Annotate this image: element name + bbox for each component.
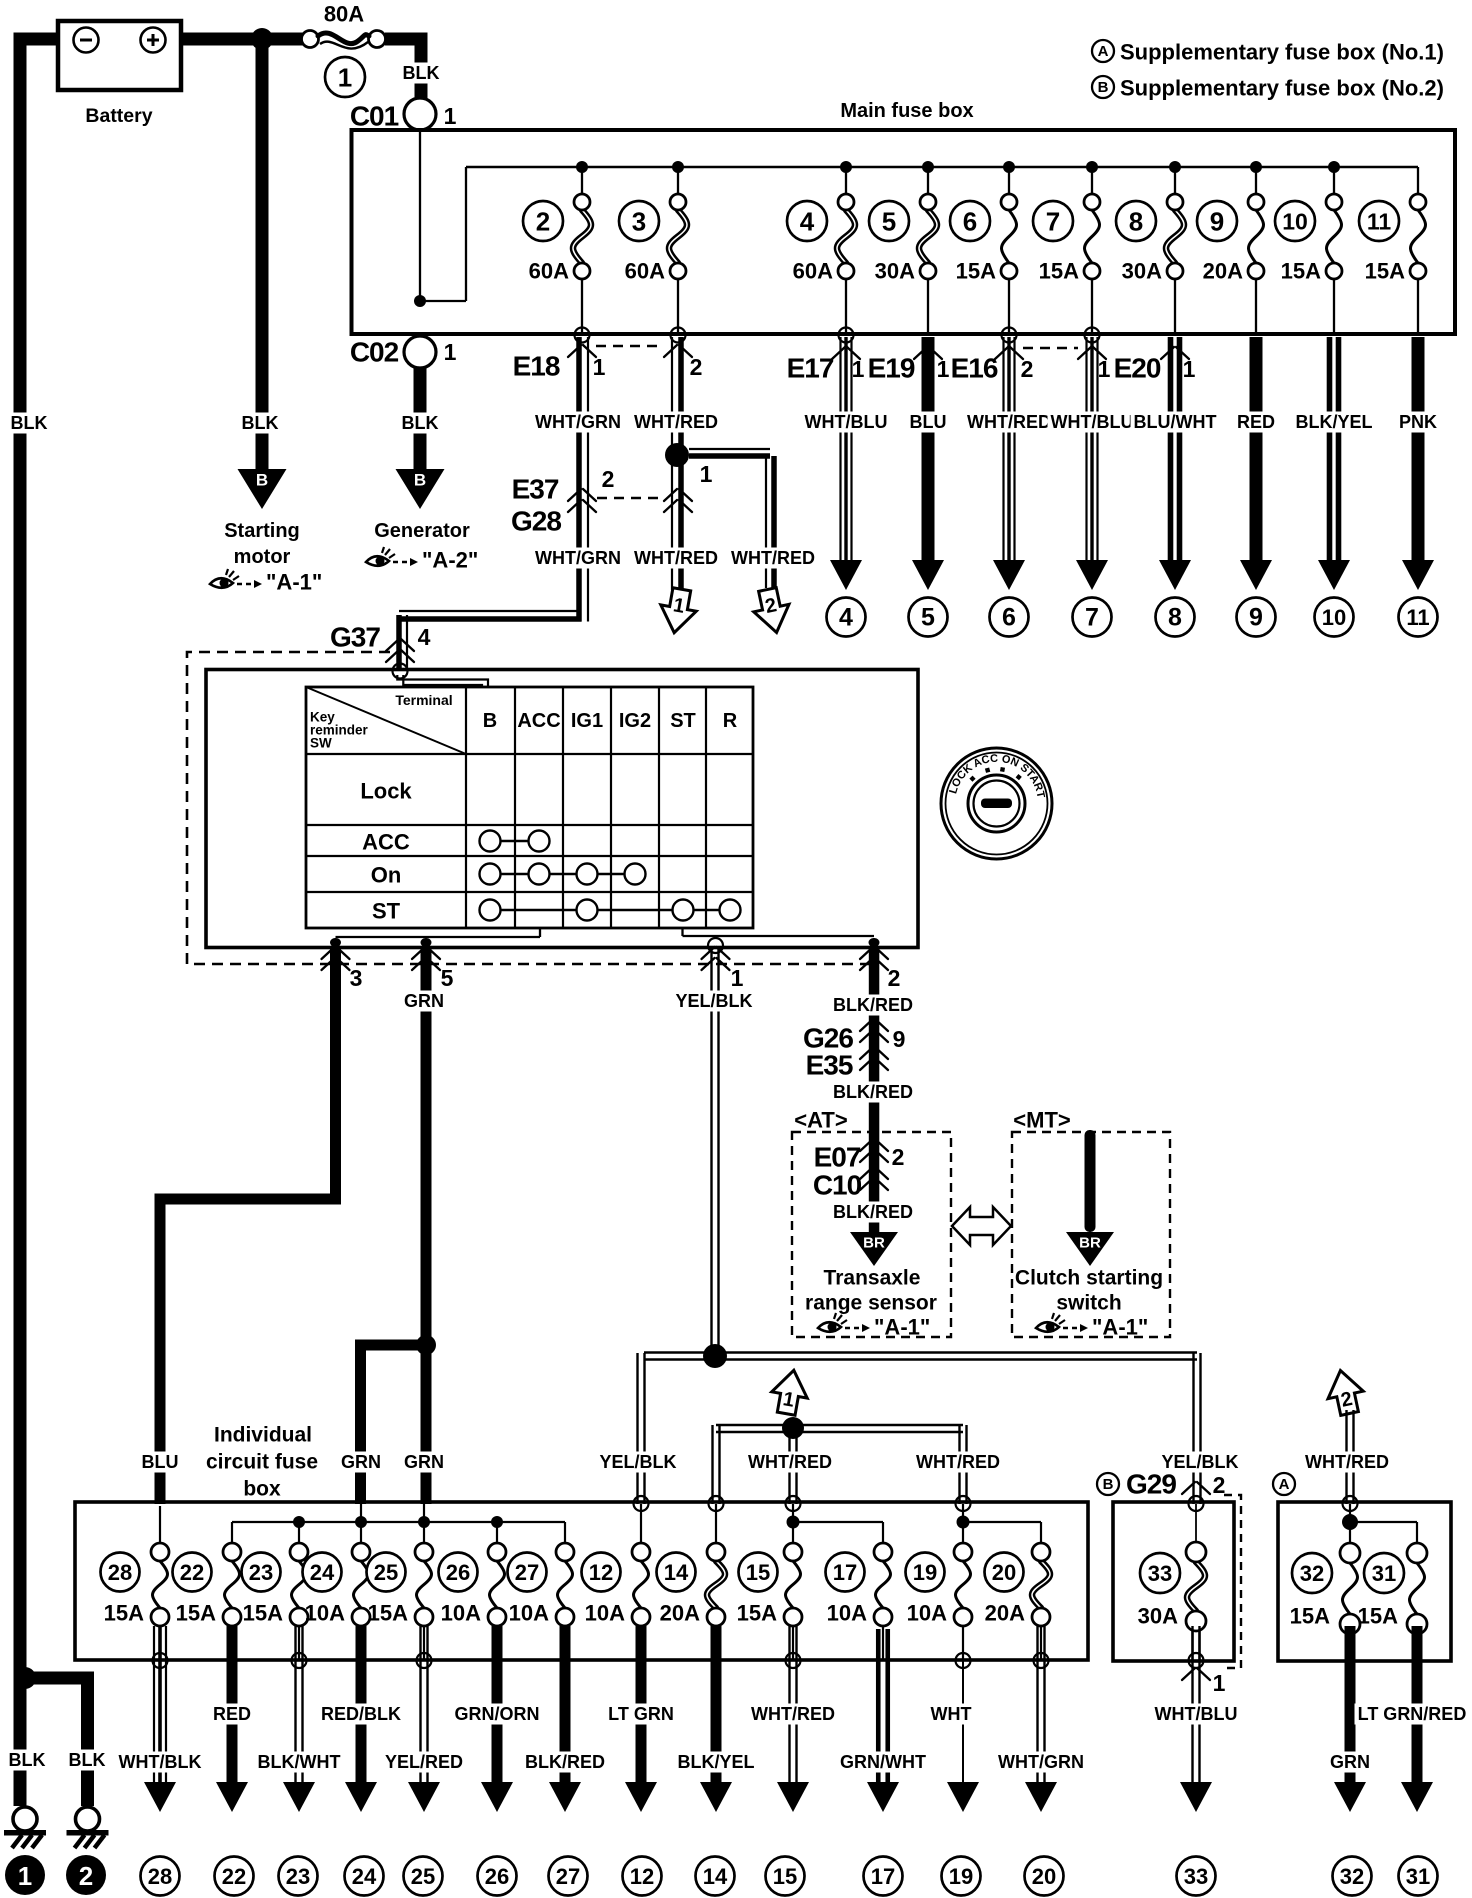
svg-text:BLK/RED: BLK/RED [525, 1752, 605, 1772]
main fuse box [352, 130, 1456, 334]
connector G29 mark bottom [1182, 1668, 1210, 1680]
svg-text:Battery: Battery [85, 105, 152, 127]
label WHT/RED A box [1302, 1452, 1392, 1473]
svg-text:E18: E18 [513, 351, 560, 382]
svg-text:YEL/RED: YEL/RED [385, 1752, 463, 1772]
fuse F2 60A [573, 210, 591, 263]
junction node ground branch [14, 1667, 36, 1689]
svg-text:15A: 15A [243, 1601, 283, 1626]
open arrow 2 from supplementary [1323, 1367, 1367, 1418]
connector G29 mark top [1182, 1482, 1210, 1494]
svg-text:RED/BLK: RED/BLK [321, 1704, 401, 1724]
svg-text:BLK: BLK [242, 413, 279, 433]
svg-text:GRN/ORN: GRN/ORN [455, 1704, 540, 1724]
callout circle 22 individual [173, 1553, 212, 1592]
label WHT/GRN below E37 [532, 548, 624, 569]
svg-text:1: 1 [18, 1861, 32, 1891]
svg-text:G37: G37 [330, 622, 380, 653]
svg-text:1: 1 [444, 339, 457, 365]
wire ACC column to pins 3 and 5 [539, 928, 541, 937]
AT MT double arrow [952, 1207, 1011, 1245]
arrow BR transaxle [850, 1232, 898, 1266]
svg-text:"A-1": "A-1" [1092, 1315, 1148, 1340]
svg-text:27: 27 [515, 1560, 539, 1585]
junction node bus fuse 8 [1169, 161, 1181, 173]
fuse F23 15A [292, 1561, 307, 1608]
label WHT/RED below E37 [631, 548, 721, 569]
solid arrow output 28 [144, 1782, 176, 1812]
legend circle B G29 [1097, 1473, 1119, 1495]
fuse F12 10A [634, 1561, 649, 1608]
svg-text:WHT/RED: WHT/RED [967, 412, 1051, 432]
svg-text:WHT/RED: WHT/RED [751, 1704, 835, 1724]
svg-text:19: 19 [913, 1560, 937, 1585]
svg-text:RED: RED [1237, 412, 1275, 432]
arrow BR clutch [1066, 1232, 1114, 1266]
svg-text:B: B [483, 710, 497, 732]
svg-text:26: 26 [485, 1864, 509, 1889]
wire bus to fuse 3 [677, 167, 679, 195]
wire ground 1 BLK [14, 1678, 27, 1806]
interior feed fuse 14 [715, 1504, 717, 1543]
svg-text:BLK/YEL: BLK/YEL [677, 1752, 754, 1772]
switch contacts On row [490, 873, 635, 875]
junction node GRN branch [416, 1335, 436, 1355]
wire bus to fuse 10 [1333, 167, 1335, 195]
solid arrow output 23 [283, 1782, 315, 1812]
destination circle 9 [1237, 598, 1276, 637]
svg-text:SW: SW [310, 736, 332, 751]
loop output fuse 20 [1034, 1653, 1049, 1668]
svg-text:22: 22 [222, 1864, 246, 1889]
ground symbol 2 [76, 1807, 100, 1831]
svg-text:WHT/BLU: WHT/BLU [1155, 1704, 1238, 1724]
svg-text:10: 10 [1282, 209, 1308, 235]
destination circle 10 [1315, 598, 1354, 637]
loop main box exit x582 [575, 328, 590, 343]
svg-text:10A: 10A [827, 1601, 867, 1626]
wire output fuse 12 [636, 1626, 647, 1790]
svg-text:BLK: BLK [402, 413, 439, 433]
solid arrow output 20 [1025, 1782, 1057, 1812]
svg-text:ST: ST [372, 899, 401, 924]
svg-text:Lock: Lock [360, 779, 412, 804]
solid arrow output 24 [345, 1782, 377, 1812]
svg-text:23: 23 [249, 1560, 273, 1585]
svg-text:15: 15 [773, 1864, 797, 1889]
svg-text:A: A [1279, 1476, 1290, 1493]
solid arrow fuse 11 [1402, 560, 1434, 590]
svg-text:IG2: IG2 [619, 710, 651, 732]
wire fuse 27 lower stub [564, 1626, 566, 1660]
generator see A-2 [366, 556, 389, 566]
svg-text:32: 32 [1300, 1561, 1324, 1586]
label BLK/RED [522, 1752, 608, 1773]
svg-text:12: 12 [589, 1560, 613, 1585]
wire output fuse 33 [1191, 1626, 1193, 1790]
svg-text:C01: C01 [350, 101, 399, 132]
pin 5 stub [421, 938, 432, 947]
svg-text:WHT/BLK: WHT/BLK [119, 1752, 202, 1772]
wire fuse 25 lower stub [423, 1626, 425, 1660]
label GRN pin5 [401, 991, 447, 1012]
callout circle 1 fusible link [325, 57, 365, 97]
connector G37 marks pin2 [860, 947, 888, 959]
label RED [1234, 412, 1278, 433]
callout circle 3 [619, 201, 659, 241]
loop G29 entry [1189, 1496, 1204, 1511]
pin 3 stub [330, 938, 341, 947]
label WHT/BLU [802, 412, 891, 433]
svg-text:LT GRN: LT GRN [608, 1704, 674, 1724]
wire branch to starting motor BLK [256, 39, 269, 478]
wire output fuse 24 [356, 1626, 367, 1790]
svg-text:LT GRN/RED: LT GRN/RED [1358, 1704, 1467, 1724]
svg-text:2: 2 [536, 207, 550, 237]
fuse F24 10A [354, 1561, 369, 1608]
callout circle 17 individual [826, 1553, 865, 1592]
svg-text:5: 5 [921, 604, 935, 632]
junction node YEL/BLK [703, 1344, 727, 1368]
loop A box entry [1343, 1496, 1358, 1511]
callout circle 28 individual [101, 1553, 140, 1592]
ground circle 1 [5, 1855, 45, 1895]
destination circle 11 [1399, 598, 1438, 637]
svg-text:2: 2 [1213, 1472, 1226, 1498]
junction node bus fuse 7 [1086, 161, 1098, 173]
fuse F5 30A [919, 210, 937, 263]
svg-text:WHT/RED: WHT/RED [634, 548, 718, 568]
fuse F10 15A [1327, 210, 1342, 263]
connector G37 marks pin3 [322, 947, 350, 959]
svg-text:Individual: Individual [214, 1424, 312, 1447]
svg-text:28: 28 [108, 1560, 132, 1585]
svg-text:9: 9 [1249, 604, 1263, 632]
svg-text:Supplementary fuse box (No.1): Supplementary fuse box (No.1) [1120, 40, 1444, 65]
destination circle 15 [766, 1857, 805, 1896]
solid arrow output 19 [947, 1782, 979, 1812]
svg-text:Generator: Generator [374, 520, 470, 542]
fuse F26 10A [490, 1561, 505, 1608]
fuse 80A main fusible link [302, 31, 319, 48]
junction node bus x361 [355, 1516, 367, 1528]
label WHT/BLU [1048, 412, 1137, 433]
svg-text:2: 2 [888, 965, 901, 991]
destination circle 25 [404, 1857, 443, 1896]
connector E16 marks [995, 347, 1023, 359]
callout circle 9 [1197, 201, 1237, 241]
svg-text:switch: switch [1056, 1292, 1121, 1315]
destination circle 4 [827, 598, 866, 637]
wire fuse 23 lower stub [298, 1626, 300, 1660]
svg-text:BLK/RED: BLK/RED [833, 1202, 913, 1222]
ground symbol 1 [13, 1807, 37, 1831]
wire clutch switch [1085, 1130, 1096, 1232]
junction node bus fuse 10 [1328, 161, 1340, 173]
connector G37 dashed boundary [187, 652, 874, 964]
wire BLK/RED pin2 [869, 947, 880, 1232]
callout circle 10 [1275, 201, 1315, 241]
destination circle 12 [623, 1857, 662, 1896]
svg-text:23: 23 [286, 1864, 310, 1889]
svg-text:15: 15 [746, 1560, 770, 1585]
callout circle 33 [1140, 1553, 1180, 1593]
wire fuse 20 lower stub [1040, 1626, 1042, 1660]
svg-text:6: 6 [1002, 604, 1016, 632]
wire WHT/GRN to B column [397, 675, 488, 687]
label GRN [1327, 1752, 1373, 1773]
loop pin 1 key switch [708, 938, 723, 953]
svg-text:8: 8 [1129, 207, 1143, 237]
svg-text:BLK: BLK [69, 1750, 106, 1770]
wire PNK from fuse [1412, 337, 1425, 562]
wire GRN branch [355, 1340, 426, 1351]
label YEL/BLK G29 [1159, 1452, 1242, 1473]
connector E17 mark [832, 347, 860, 359]
pin 2 stub [869, 938, 880, 947]
svg-text:10A: 10A [509, 1601, 549, 1626]
wire RED from fuse [1250, 337, 1263, 562]
svg-text:19: 19 [949, 1864, 973, 1889]
junction node bus fuse 3 [672, 161, 684, 173]
svg-text:11: 11 [1406, 605, 1429, 630]
label PNK [1396, 412, 1440, 433]
svg-text:9: 9 [1210, 207, 1224, 237]
svg-text:WHT/GRN: WHT/GRN [535, 412, 621, 432]
fuse F32 15A [1343, 1563, 1358, 1614]
wire fuse 22 lower stub [231, 1626, 233, 1660]
svg-text:15A: 15A [1290, 1604, 1330, 1629]
svg-text:10A: 10A [441, 1601, 481, 1626]
wire fuse 17 lower stub [882, 1626, 884, 1660]
wire bus to fuse 9 [1255, 167, 1257, 195]
table diagonal [306, 687, 466, 754]
wire fuse 9 to box bottom [1255, 279, 1257, 332]
legend B supplementary fuse box No.2 [1092, 76, 1114, 98]
destination circle 33 [1177, 1857, 1216, 1896]
wire BLU from fuse [922, 337, 935, 562]
wire bus to fuse 11 [1417, 167, 1419, 195]
battery [58, 21, 181, 90]
label WHT/RED fuse3 [631, 412, 721, 433]
solid arrow output 32 [1334, 1782, 1366, 1812]
fuse F9 20A [1249, 210, 1264, 263]
wire battery positive to fuse [179, 33, 303, 46]
destination circle 19 [942, 1857, 981, 1896]
svg-text:1: 1 [731, 965, 744, 991]
wire bus to fuse 2 [581, 167, 583, 195]
svg-text:7: 7 [1046, 207, 1060, 237]
wire WHT/RED to A box [1345, 1410, 1347, 1504]
wire fuse 11 to box bottom [1417, 279, 1419, 332]
label BLK/WHT [255, 1752, 344, 1773]
wire output fuse 25 [419, 1626, 421, 1790]
svg-text:1: 1 [852, 356, 865, 382]
fuse F15 15A [786, 1561, 801, 1608]
svg-text:80A: 80A [324, 2, 364, 27]
solid arrow fuse 7 [1076, 560, 1108, 590]
callout circle 31 [1364, 1553, 1404, 1593]
wire WHT/BLU from fuse [839, 337, 841, 562]
wire fuse 24 lower stub [360, 1626, 362, 1660]
fuse F6 15A [1002, 210, 1017, 263]
wire fuse 4 to box bottom [845, 279, 847, 332]
callout circle 2 [523, 201, 563, 241]
svg-text:60A: 60A [793, 259, 833, 284]
destination circle 24 [345, 1857, 384, 1896]
solid arrow output 14 [700, 1782, 732, 1812]
connector G37 marks pin5 [412, 947, 440, 959]
svg-text:BLK: BLK [403, 63, 440, 83]
callout circle 12 individual [582, 1553, 621, 1592]
wire battery negative BLK vertical [14, 33, 61, 46]
svg-text:box: box [243, 1478, 281, 1501]
wire fuse 7 to box bottom [1091, 279, 1093, 332]
svg-text:Transaxle: Transaxle [824, 1267, 921, 1290]
connector G37 marks [386, 639, 414, 651]
svg-text:8: 8 [1168, 604, 1182, 632]
solid arrow output 26 [481, 1782, 513, 1812]
callout circle 27 individual [508, 1553, 547, 1592]
destination circle 14 [696, 1857, 735, 1896]
junction node bus fuse 5 [922, 161, 934, 173]
svg-text:15A: 15A [104, 1601, 144, 1626]
connector E20 mark [1161, 347, 1189, 359]
connector C01 [404, 98, 436, 130]
svg-text:1: 1 [700, 461, 713, 487]
open arrow 2 to supplementary box [750, 586, 794, 637]
svg-text:60A: 60A [625, 259, 665, 284]
fuse F4 60A [837, 210, 855, 263]
svg-text:"A-1": "A-1" [266, 570, 322, 595]
svg-text:2: 2 [602, 466, 615, 492]
svg-text:2: 2 [690, 354, 703, 380]
fuse F8 30A [1166, 210, 1184, 263]
wire YEL/BLK pin1 [710, 947, 712, 1352]
destination circle 26 [478, 1857, 517, 1896]
clutch see A-1 [1036, 1322, 1059, 1332]
wire output fuse 26 [492, 1626, 503, 1790]
callout circle 14 individual [657, 1553, 696, 1592]
svg-text:GRN: GRN [1330, 1752, 1370, 1772]
switch contacts ST row [490, 909, 730, 911]
loop individual box entry x793 [786, 1496, 801, 1511]
svg-text:GRN: GRN [341, 1452, 381, 1472]
callout circle 32 [1292, 1553, 1332, 1593]
label GRN main [401, 1452, 447, 1473]
svg-text:BLK/RED: BLK/RED [833, 995, 913, 1015]
junction node bus fuse 2 [576, 161, 588, 173]
wire GRN pin5 [421, 947, 432, 1504]
svg-text:1: 1 [1213, 1670, 1226, 1696]
destination circle 20 [1025, 1857, 1064, 1896]
svg-text:2: 2 [892, 1144, 905, 1170]
loop output fuse 28 [153, 1653, 168, 1668]
label GRN/WHT [837, 1752, 929, 1773]
svg-text:9: 9 [893, 1026, 906, 1052]
svg-text:30A: 30A [1122, 259, 1162, 284]
loop individual box entry x641 [634, 1496, 649, 1511]
wire output fuse 32 [1345, 1626, 1356, 1790]
starting motor see A-1 [210, 578, 233, 588]
svg-text:E07: E07 [814, 1142, 861, 1173]
loop main box exit x846 [839, 328, 854, 343]
svg-text:32: 32 [1340, 1864, 1364, 1889]
svg-text:<MT>: <MT> [1013, 1108, 1070, 1133]
destination circle 28 [141, 1857, 180, 1896]
destination circle 8 [1156, 598, 1195, 637]
svg-text:24: 24 [310, 1560, 335, 1585]
wire fuse 10 to box bottom [1333, 279, 1335, 332]
wire WHT/BLU from fuse [1085, 337, 1087, 562]
wire fuse 5 to box bottom [927, 279, 929, 332]
connector E18 marks [568, 345, 596, 357]
destination circle 6 [990, 598, 1029, 637]
fuse F28 15A [153, 1561, 168, 1608]
solid arrow output 12 [625, 1782, 657, 1812]
svg-text:15A: 15A [368, 1601, 408, 1626]
loop main box exit x1009 [1002, 328, 1017, 343]
svg-text:4: 4 [800, 207, 815, 237]
svg-text:WHT/RED: WHT/RED [731, 548, 815, 568]
svg-text:1: 1 [937, 356, 950, 382]
svg-text:ACC: ACC [362, 830, 410, 855]
svg-text:24: 24 [352, 1864, 377, 1889]
svg-text:R: R [723, 710, 738, 732]
svg-text:On: On [371, 863, 402, 888]
svg-text:WHT/RED: WHT/RED [1305, 1452, 1389, 1472]
junction node bus x497 [491, 1516, 503, 1528]
wire WHT/RED horizontal run [716, 1424, 963, 1426]
svg-text:YEL/BLK: YEL/BLK [675, 991, 752, 1011]
label BLK ground 1 [6, 1750, 49, 1771]
label BLK/RED in AT box [830, 1202, 916, 1223]
MT dashed box [1012, 1132, 1170, 1337]
junction node bus fuse 4 [840, 161, 852, 173]
ground circle 2 [66, 1855, 106, 1895]
label WHT/BLU [1152, 1704, 1241, 1725]
svg-text:26: 26 [446, 1560, 470, 1585]
label WHT/BLK [116, 1752, 205, 1773]
svg-text:BR: BR [863, 1235, 885, 1252]
wire output fuse 28 [153, 1626, 155, 1790]
fuse F25 15A [417, 1561, 432, 1608]
svg-text:PNK: PNK [1399, 412, 1437, 432]
fuse F19 10A [956, 1561, 971, 1608]
svg-text:22: 22 [180, 1560, 204, 1585]
junction node WHT/RED [665, 443, 689, 467]
svg-text:15A: 15A [956, 259, 996, 284]
svg-text:3: 3 [350, 965, 363, 991]
svg-text:<AT>: <AT> [794, 1108, 847, 1133]
svg-text:10: 10 [1322, 605, 1346, 630]
svg-text:WHT/GRN: WHT/GRN [535, 548, 621, 568]
svg-text:RED: RED [213, 1704, 251, 1724]
svg-text:C02: C02 [350, 337, 399, 368]
svg-text:B: B [1103, 1476, 1114, 1493]
label WHT/RED branch [728, 548, 818, 569]
wire BLU/WHT from fuse [1168, 337, 1174, 562]
wire BLK/YEL from fuse [1327, 337, 1333, 562]
solid arrow output 31 [1401, 1782, 1433, 1812]
wire C01 riser to bus [419, 130, 421, 301]
svg-text:15A: 15A [1281, 259, 1321, 284]
callout circle 7 [1033, 201, 1073, 241]
svg-text:ACC: ACC [517, 710, 560, 732]
callout circle 19 individual [906, 1553, 945, 1592]
svg-text:15A: 15A [1358, 1604, 1398, 1629]
svg-text:circuit fuse: circuit fuse [206, 1451, 318, 1474]
